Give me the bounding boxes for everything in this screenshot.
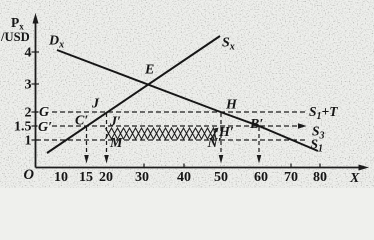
svg-text:G: G — [39, 105, 49, 120]
svg-text:B′: B′ — [249, 117, 263, 132]
svg-text:30: 30 — [135, 170, 149, 185]
svg-text:X: X — [349, 171, 360, 186]
svg-text:M: M — [109, 136, 123, 151]
svg-text:J: J — [91, 97, 100, 112]
svg-text:O: O — [24, 167, 35, 183]
svg-text:N′: N′ — [207, 136, 222, 151]
svg-text:/USD: /USD — [0, 30, 30, 44]
svg-text:40: 40 — [177, 170, 191, 185]
svg-text:J′: J′ — [109, 115, 121, 130]
svg-text:H: H — [225, 98, 238, 113]
svg-text:4: 4 — [25, 46, 32, 61]
svg-text:15: 15 — [79, 170, 93, 185]
svg-text:20: 20 — [99, 170, 113, 185]
svg-text:10: 10 — [54, 170, 68, 185]
svg-text:C′: C′ — [75, 114, 88, 129]
svg-text:80: 80 — [313, 170, 327, 185]
svg-text:50: 50 — [214, 170, 228, 185]
svg-text:70: 70 — [284, 170, 298, 185]
svg-text:E: E — [144, 63, 154, 78]
svg-text:G′: G′ — [38, 120, 52, 135]
svg-text:1: 1 — [25, 134, 32, 149]
svg-text:2: 2 — [25, 106, 32, 121]
svg-text:3: 3 — [25, 78, 32, 93]
svg-text:1.5: 1.5 — [14, 120, 32, 135]
svg-text:60: 60 — [254, 170, 268, 185]
